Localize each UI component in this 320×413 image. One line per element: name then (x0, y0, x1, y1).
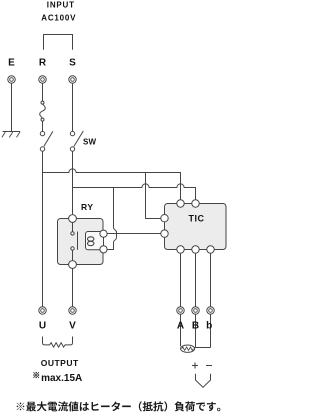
svg-text:U: U (39, 321, 46, 332)
svg-text:AC100V: AC100V (41, 13, 76, 22)
svg-text:R: R (39, 58, 47, 69)
svg-text:V: V (69, 321, 76, 332)
svg-text:INPUT: INPUT (47, 0, 75, 9)
svg-text:S: S (69, 58, 76, 69)
svg-text:E: E (8, 58, 15, 69)
svg-text:OUTPUT: OUTPUT (41, 358, 79, 368)
svg-text:TIC: TIC (189, 214, 205, 224)
svg-text:b: b (206, 321, 212, 332)
svg-text:A: A (177, 321, 184, 332)
svg-text:RY: RY (81, 202, 94, 212)
svg-text:SW: SW (83, 138, 97, 147)
svg-text:B: B (192, 321, 199, 332)
svg-text:max.15A: max.15A (41, 373, 82, 384)
